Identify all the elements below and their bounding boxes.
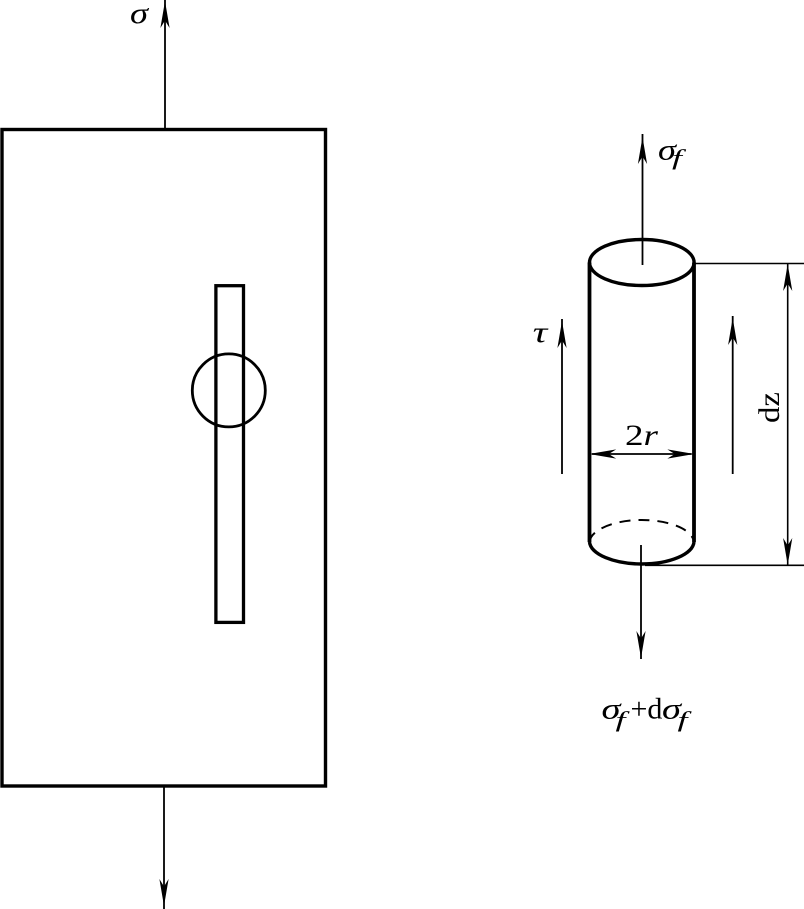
- cylinder right side: [692, 263, 696, 543]
- svg-text:σ: σ: [130, 0, 149, 30]
- top arrow (applied stress up): [164, 0, 166, 129]
- svg-text:τ: τ: [533, 316, 549, 349]
- svg-text:f: f: [616, 707, 631, 732]
- svg-text:f: f: [678, 707, 693, 732]
- sigma_f arrow (up, from top face): [642, 134, 644, 265]
- dz top extension line: [695, 263, 804, 265]
- 2r dimension double arrow: [592, 453, 692, 455]
- element circle on fiber: [192, 354, 265, 427]
- cylinder left side: [588, 263, 592, 543]
- dz dimension vertical line: [787, 264, 789, 566]
- svg-text:f: f: [672, 145, 687, 170]
- cylinder bottom: solid lower arc: [590, 542, 695, 564]
- bottom arrow (sigma_f + d sigma_f, down): [640, 545, 642, 659]
- cylinder top ellipse: [590, 240, 695, 286]
- dz bottom extension line: [645, 564, 804, 566]
- cylinder bottom: dashed upper arc: [590, 520, 695, 542]
- matrix plate rectangle: [2, 130, 326, 787]
- svg-text:+d: +d: [631, 693, 663, 726]
- svg-text:2r: 2r: [625, 419, 658, 452]
- svg-text:dz: dz: [753, 392, 786, 423]
- right shear arrow (up, right of cylinder): [732, 316, 734, 474]
- tau arrow (up, left of cylinder): [561, 319, 563, 474]
- fiber (thin vertical rectangle): [216, 286, 244, 623]
- bottom arrow (applied stress down): [163, 787, 165, 909]
